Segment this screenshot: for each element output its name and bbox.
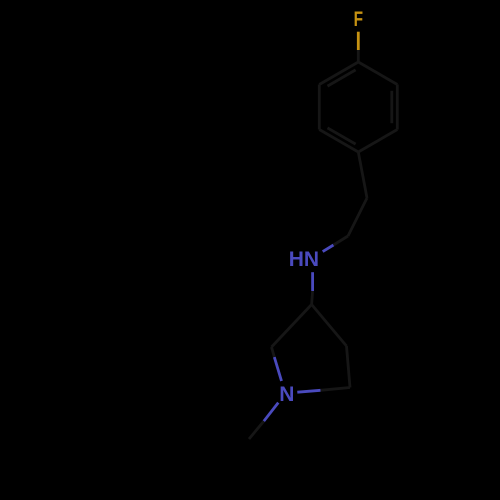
svg-text:F: F [354,8,364,31]
svg-text:N: N [279,383,294,406]
svg-text:HN: HN [289,248,319,271]
